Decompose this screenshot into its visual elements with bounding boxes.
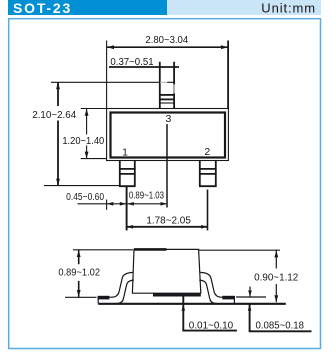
dim 0.89~1.02 line lower	[78, 281, 80, 297]
top-right extension line	[199, 249, 280, 251]
svg-text:3: 3	[165, 113, 171, 125]
dim 2.10~2.64 top extension dark part over pin	[167, 81, 175, 83]
arrow 0.45 left	[107, 202, 113, 206]
arrow 0.45 right	[120, 202, 126, 206]
standoff upper arrow line at line A	[249, 287, 251, 297]
svg-text:2: 2	[204, 146, 210, 158]
arrow side 0.90 down	[274, 295, 278, 302]
dim 1.20~1.40 bottom extension	[81, 158, 107, 160]
arrow 2.80 left	[107, 45, 114, 49]
left lead tip bold bar	[98, 296, 110, 300]
pin 3 left edge	[159, 62, 161, 109]
header dark blue bar	[8, 0, 167, 15]
right lead tip bold bar	[222, 296, 235, 300]
svg-text:0.89~1.02: 0.89~1.02	[58, 268, 100, 279]
left lead lower outline	[116, 280, 134, 304]
arrow side 0.89 down	[77, 290, 81, 297]
svg-text:1.78~2.05: 1.78~2.05	[146, 215, 191, 226]
pin 3 right edge gray segment	[173, 84, 175, 93]
arrow 1.20 down	[85, 152, 89, 159]
arrow 1.20 up	[85, 109, 89, 116]
pin 1 band 1	[119, 168, 136, 170]
side body outline	[132, 249, 200, 293]
svg-text:0.90~1.12: 0.90~1.12	[254, 273, 299, 284]
left foot-top extension line	[65, 296, 97, 298]
top-left extension line	[73, 249, 133, 251]
svg-text:0.89~1.03: 0.89~1.03	[129, 190, 164, 201]
svg-text:2.10~2.64: 2.10~2.64	[32, 110, 76, 121]
side body bottom bold segment	[153, 293, 201, 296]
pin 3 right edge	[173, 62, 175, 109]
svg-text:1.20~1.40: 1.20~1.40	[62, 136, 104, 147]
pin 1 right edge	[134, 161, 136, 187]
dim 2.10~2.64 line lower	[57, 121, 59, 186]
arrow 1.78 right	[201, 225, 207, 229]
dim 2.10~2.64 top extension	[51, 81, 160, 83]
0.085 riser with up arrow	[249, 305, 251, 332]
right lead end cap	[233, 296, 235, 303]
pin 2 band 2	[199, 173, 217, 175]
pin 3 band 1	[159, 94, 175, 96]
side body top bold segment	[134, 248, 167, 251]
pin 2 left edge	[199, 161, 201, 187]
svg-text:0.085~0.18: 0.085~0.18	[256, 321, 305, 332]
dim 1.78~2.05 line	[127, 226, 208, 228]
pin 1 centerline	[126, 186, 128, 230]
dim 0.89~1.02 line upper	[78, 250, 80, 264]
dim 0.45~0.60 body-edge tick	[106, 200, 108, 210]
0.01 riser	[182, 294, 184, 331]
dim 2.10~2.64 top extension gray part over pin	[160, 81, 167, 83]
dim 0.45~0.60 / 0.89~1.03 shared line	[78, 203, 168, 205]
arrow 0.01 up below seating	[182, 305, 186, 311]
arrow 0.89 right	[161, 202, 167, 206]
seating plane line	[98, 303, 286, 305]
0.085 underline	[249, 330, 312, 332]
package body outer outline (top view)	[107, 109, 229, 161]
dim 2.10~2.64 bottom extension	[44, 185, 120, 187]
pin 2 right edge	[215, 161, 217, 187]
svg-text:2.80~3.04: 2.80~3.04	[145, 35, 188, 46]
header light blue bar	[167, 0, 321, 15]
dim 2.80~3.04 right extension	[227, 41, 229, 109]
svg-text:SOT-23: SOT-23	[13, 0, 72, 16]
arrow 2.10 down	[56, 179, 60, 186]
dim 2.10~2.64 line upper	[57, 82, 59, 106]
arrow standoff down at line A	[248, 290, 252, 296]
svg-text:0.45~0.60: 0.45~0.60	[66, 192, 104, 203]
pin 1 bottom edge	[119, 185, 136, 187]
arrow 2.80 right	[221, 45, 228, 49]
arrow 2.10 up	[56, 82, 60, 89]
left lead upper outline	[98, 272, 133, 297]
pin 3 band 3	[159, 102, 175, 104]
svg-text:0.01~0.10: 0.01~0.10	[189, 320, 234, 331]
arrow side 0.90 up	[274, 250, 278, 257]
package body inner bold outline (top view)	[111, 113, 226, 158]
dim 0.90~1.12 line lower	[275, 284, 277, 302]
pin 2 bottom edge	[199, 185, 217, 187]
svg-text:Unit:mm: Unit:mm	[261, 1, 316, 16]
arrow side 0.89 up	[77, 250, 81, 257]
pin 2 centerline	[207, 190, 209, 231]
pin 3 centerline	[166, 124, 168, 208]
svg-text:1: 1	[122, 147, 128, 159]
pin 1 left edge	[119, 161, 121, 187]
pin 2 band 1	[199, 168, 217, 170]
pin 1 band 2	[119, 173, 136, 175]
dim 1.20~1.40 line upper	[86, 109, 88, 135]
0.01 underline	[182, 330, 237, 332]
dim 2.80~3.04 line	[107, 46, 228, 48]
dim 0.37~0.51 leader underline	[109, 66, 179, 68]
svg-text:0.37~0.51: 0.37~0.51	[110, 57, 154, 68]
left lead end cap	[97, 296, 99, 303]
arrow standoff up below seating	[248, 305, 252, 311]
right lead upper outline	[200, 272, 234, 297]
right lead lower outline	[199, 280, 217, 304]
dim 1.20~1.40 line lower	[86, 146, 88, 159]
right foot-top extension line A	[236, 296, 266, 298]
pin 3 band 2	[159, 98, 175, 100]
arrow 0.89 left	[127, 202, 133, 206]
arrow 1.78 left	[127, 225, 133, 229]
dim 1.20~1.40 top extension	[81, 108, 107, 110]
dim 0.90~1.12 line upper	[275, 250, 277, 268]
dim 2.80~3.04 left extension	[106, 41, 108, 109]
